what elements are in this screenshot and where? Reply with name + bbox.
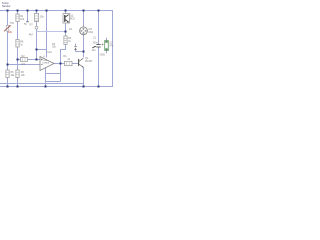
resistor R2 series [21,55,28,66]
wire fan column [83,11,85,27]
wire Q2 emitter to ground [83,68,85,87]
resistor R3 on Q1 column [52,28,73,49]
node junction dots [7,10,100,88]
svg-text:5V: 5V [24,23,27,26]
transistor Q1 top [63,14,75,24]
resistor R8 mid divider [16,40,24,48]
wire divider tap to series resistor [18,59,22,61]
capacitor C1 [92,37,101,53]
resistor R1 [16,14,25,22]
wire supply feed column [46,11,48,50]
svg-text:TH1: TH1 [10,22,15,25]
wire bottom emitter rail [0,83,84,85]
wire op-amp output [54,63,65,65]
wire right edge column [112,11,114,88]
resistor R6 bottom [16,70,26,78]
svg-text:100n: 100n [92,42,98,45]
op-amp U1 [40,51,54,71]
svg-text:U1A: U1A [47,51,52,54]
svg-text:Temp: Temp [2,1,9,5]
thermistor TH1 [4,22,15,34]
wire capacitor column [98,11,100,45]
svg-text:FAN: FAN [89,31,94,34]
potentiometer R7 [29,14,44,37]
wire bottom ground rail [0,86,113,88]
svg-text:Sensor: Sensor [2,4,11,8]
wire loop horizontals [46,73,61,75]
svg-text:GND: GND [100,53,106,56]
resistor R4 output [63,55,72,65]
wire op-amp V- pin to ground [45,68,47,87]
wire C2 stubs [106,38,108,41]
wire thermistor tap to op-amp inverting input [8,64,41,66]
wire to op-amp V+ pin [37,49,47,51]
wire top +V rail [0,10,113,12]
wire R1 divider column [17,11,19,15]
svg-text:BC337: BC337 [85,60,93,63]
wire pot column [36,11,38,14]
net flag 5V [24,22,29,26]
wire net stub 5V [27,11,29,22]
svg-text:LM358: LM358 [42,63,49,65]
wire thermistor column [7,11,9,26]
svg-text:47u: 47u [109,45,114,48]
wire pot wiper tap across (lighter) [37,31,66,33]
svg-text:BC5: BC5 [70,17,75,20]
wire R4 to Q2 base [72,63,79,65]
svg-text:U1A: U1A [43,59,48,62]
fan motor M1 [80,27,94,35]
svg-text:4k7: 4k7 [29,33,34,36]
diode D1 flyback [74,47,77,50]
svg-text:10u: 10u [92,49,97,52]
transistor Q2 driver [79,57,94,68]
capacitor C2 electrolytic [100,41,114,57]
wire flyback diode stubs [76,51,84,53]
resistor R5 bottom left [6,70,15,78]
wire feedback from Q1 branch [61,45,66,82]
svg-text:10k: 10k [8,30,13,34]
wire Q1 column [65,11,67,14]
